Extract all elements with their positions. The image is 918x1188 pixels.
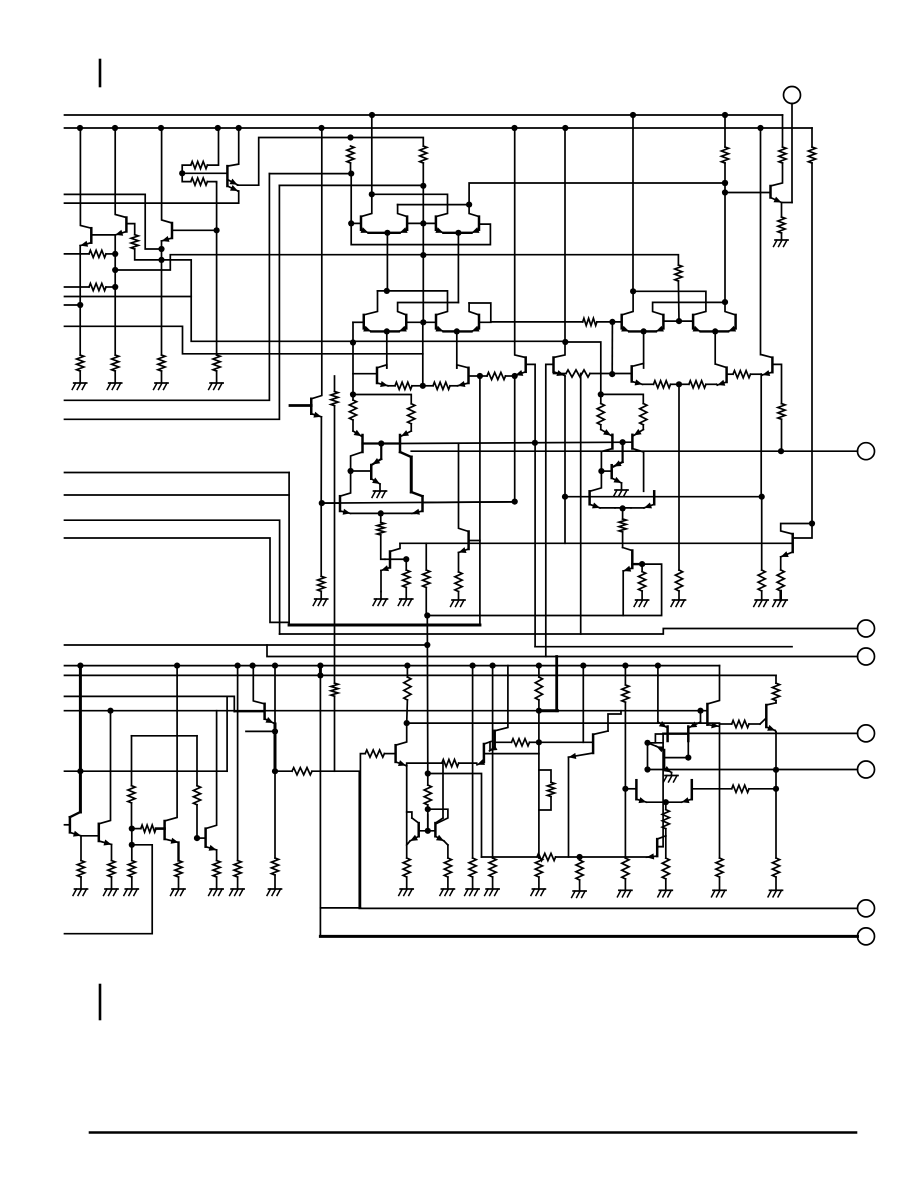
transistor Q55 PNP3 (611, 435, 614, 449)
wire x538 low (538, 742, 540, 858)
junction L665 x80.4 (77, 663, 83, 669)
transistor Q27 PNP1 (353, 430, 363, 452)
wire Q45 base (495, 739, 539, 746)
transistor Q15 (524, 358, 527, 372)
wire QO collector (165, 666, 178, 821)
wire QU collector tie (781, 524, 812, 535)
wire Q41 collector (407, 812, 419, 823)
wire L696 stair (65, 696, 235, 711)
wire x657 col (657, 666, 659, 722)
wire L496 (565, 496, 762, 498)
wire rq base link (663, 320, 693, 322)
resistor R20 (679, 381, 717, 388)
wire col216 (216, 183, 218, 355)
resistor R49 (489, 858, 496, 889)
junction bus2 x115 (112, 125, 118, 131)
wire L612 (426, 564, 661, 615)
junction q22 base (609, 371, 615, 377)
resistor R3 (112, 355, 119, 383)
junction bus1 x372 (369, 112, 375, 118)
junction Q3 emitter (158, 246, 164, 252)
wire L625 thick (289, 624, 480, 627)
transistor Q38 QO (163, 821, 166, 839)
ground G18 (209, 889, 224, 896)
ground G27 (617, 890, 632, 897)
wire QG net stub (390, 558, 406, 560)
transistor Q43 QW (394, 745, 397, 762)
junction x725 y183 (722, 180, 728, 186)
wire L400 (65, 174, 270, 401)
junction Q1 emitter stub (65, 302, 84, 308)
wire QG collector (390, 543, 400, 551)
resistor R63 (331, 683, 338, 771)
wire Q50 base (692, 785, 776, 792)
wire x423 tail (422, 322, 424, 386)
wire x760 down (760, 128, 762, 355)
wire Q21 collector (725, 302, 736, 315)
wire x131 low (131, 829, 133, 861)
wire x237 col (237, 666, 239, 861)
wire QI collector (459, 444, 469, 532)
wire L472 (65, 472, 290, 474)
resistor R47 (442, 760, 477, 767)
wire PNP2 collector (400, 452, 423, 496)
transistor Q4 dual emitter (182, 166, 227, 186)
resistor R58 (662, 858, 669, 890)
ground G9 (451, 600, 466, 607)
transistor Q14 (457, 365, 469, 387)
wire Q10 collector (398, 303, 459, 315)
wire L342 jog (565, 342, 601, 394)
wire Q26 emitter (311, 412, 321, 503)
transistor Q35 QU (791, 534, 794, 552)
transistor Q53 QS (765, 705, 768, 727)
junction Q4 base (179, 170, 185, 176)
wire Q42 emit col (447, 845, 449, 858)
ground G11 (754, 600, 769, 607)
ground G19 (230, 889, 245, 896)
wire Q40 emitter (265, 717, 275, 724)
wire Q18 collector (622, 291, 633, 315)
transistor Q26 (290, 399, 311, 414)
resistor R17 (808, 128, 815, 524)
wire Q4 emitter1 (227, 179, 258, 186)
tick mark bottom-left (99, 985, 102, 1019)
wire Q3 emitter (162, 236, 173, 355)
wire Q54 emitter (569, 753, 594, 857)
wire x275 col (274, 666, 276, 772)
terminal pin P7 (858, 900, 875, 917)
transistor Q32 QG (385, 552, 390, 568)
junction L665 x625.4 (622, 663, 628, 669)
wire Q45 collector (495, 666, 508, 731)
wire x320 thick link (319, 666, 322, 676)
junction R2 out (158, 257, 164, 263)
wire QM emitter drop (80, 836, 82, 861)
transistor Q25 Tb (761, 355, 772, 376)
wire QS emitter (766, 725, 776, 732)
junction mirror base (378, 440, 384, 446)
wire Q16 emitter (554, 370, 566, 376)
wire QW emitter chain (406, 766, 408, 858)
transistor pair Q18 Q19 (621, 315, 664, 335)
junction L665 x538.9 (536, 663, 542, 669)
wire x289 col (288, 473, 290, 626)
footer rule (90, 1131, 856, 1134)
wire x679 col (678, 384, 680, 570)
wire Q2 emitter (115, 230, 126, 355)
wire thick L710 seg (539, 709, 558, 712)
resistor R22 (331, 376, 338, 683)
junction bus2 x238.7 (236, 125, 242, 131)
junction L183 end (722, 180, 728, 186)
wire x647 col (647, 743, 649, 770)
wire bus2 second rail (65, 127, 813, 129)
junction n270 (112, 267, 118, 273)
wire x131 col (131, 736, 133, 786)
wire QW base (360, 750, 395, 908)
wire y844 to L933 (65, 845, 153, 934)
wire x423 mid (422, 223, 424, 322)
resistor R62 (318, 576, 325, 599)
wire QO emitter (165, 838, 179, 861)
wire Q26 collector (311, 128, 322, 399)
junction x80 L771 (77, 768, 83, 774)
wire Q8 collector (469, 205, 479, 217)
transistor Q28 PNP2 (400, 430, 411, 452)
terminal pin P1 (782, 87, 801, 203)
junction rwp center (676, 381, 682, 387)
junction x725 y302 (722, 299, 728, 305)
wire QT collector (657, 836, 666, 839)
ground G26 (572, 891, 587, 898)
wire QS emit col (775, 732, 777, 858)
junction QP base (194, 835, 200, 841)
wire Q13 base (353, 373, 377, 375)
resistor R34 (108, 861, 115, 890)
junction R11 mid (420, 183, 426, 189)
transistor Q52 QR (706, 704, 709, 725)
wire Q5 base (351, 222, 361, 224)
wire QV collector (623, 548, 633, 551)
junction L665 x252.6 (250, 663, 256, 669)
wire QW collector (396, 723, 407, 745)
junction L857 x579 (577, 854, 583, 860)
junction Q46 base (644, 740, 650, 746)
transistor Q50 (666, 780, 692, 803)
wire QI emitter (459, 547, 469, 572)
junction L710 x110 (107, 708, 113, 714)
resistor R66 (601, 394, 647, 435)
wire QR emitter (707, 722, 719, 728)
terminal pin P2 (781, 443, 875, 460)
junction QF2 base (685, 755, 691, 761)
wire QP collector (206, 711, 217, 829)
wire q12 link (469, 303, 491, 322)
wire L773 (428, 774, 482, 858)
ground G3 (154, 383, 169, 390)
resistor R30 (758, 570, 765, 600)
wire L857 ext (580, 856, 652, 858)
transistor Q49 (625, 780, 665, 803)
wire Q2 collector (115, 128, 126, 218)
wire row2 base link (406, 321, 436, 323)
terminal pin P5 (858, 725, 875, 742)
wire QY QX join (489, 742, 491, 750)
junction Q5 base (348, 220, 354, 226)
wire x321 lower (320, 503, 322, 576)
junction x625 y788 (622, 786, 628, 792)
wire Q15 emitter (515, 370, 526, 376)
wire row2 top link (378, 291, 448, 315)
transistor Q1 (91, 228, 115, 243)
resistor R15 (779, 115, 786, 163)
transistor Q16 (552, 358, 555, 372)
junction QG net (403, 556, 409, 562)
junction lwp center (378, 510, 384, 516)
wire QP emitter (206, 845, 217, 861)
wire Q4 emitter2 (65, 185, 239, 203)
wire QU base tie (793, 524, 812, 539)
wire L296 (65, 296, 192, 298)
wire L183 (469, 183, 725, 205)
wire x538 top (538, 666, 540, 677)
junction L665 x657.9 (655, 663, 661, 669)
transistor Q41 PNPa (417, 823, 420, 836)
resistor R37 (128, 861, 135, 890)
junction y194 x372 (369, 191, 375, 197)
wire x583 drop (582, 666, 584, 743)
resistor R60 (772, 675, 779, 703)
resistor R11 (420, 146, 427, 223)
transistor Q58 (590, 491, 615, 508)
transistor Q22 (632, 363, 654, 385)
wire x725 col (724, 193, 726, 303)
transistor pair Q20 Q21 (693, 315, 737, 335)
wire x427 col (426, 616, 429, 774)
ground G31 (768, 890, 783, 897)
resistor R9 (182, 173, 216, 185)
wire R57 low (665, 836, 667, 858)
junction QU tie (809, 520, 815, 526)
resistor R2 (131, 235, 161, 260)
ground G7 (373, 592, 388, 606)
resistor R12 (395, 382, 423, 389)
resistor R31 (639, 564, 646, 600)
resistor R32 (777, 570, 784, 600)
wire stair y270 (115, 255, 423, 270)
wire x625 low (624, 789, 626, 858)
junction Q3 base (214, 227, 220, 233)
wire x492 col (492, 666, 494, 858)
transistor Q44 QX (477, 744, 485, 765)
transistor Q33 QI (469, 532, 480, 550)
wire x227 drop (226, 696, 228, 771)
resistor R28 (455, 572, 462, 600)
wire L451 (411, 450, 781, 452)
transistor Q59 (631, 491, 654, 508)
wire Q25 base (772, 364, 781, 403)
wire Q56 collector (632, 449, 643, 492)
wire L770 (648, 769, 858, 771)
junction n287 (112, 284, 118, 290)
transistor Q51 QT (657, 839, 663, 856)
transistor Q13 (377, 365, 395, 387)
junction QK emitter (512, 373, 518, 379)
junction x776 y788 (773, 786, 779, 792)
wire QM emitter (70, 831, 99, 837)
wire QF3 collector (612, 477, 622, 490)
resistor R38 (175, 861, 182, 890)
ground G10 (671, 600, 686, 607)
ground G29 (658, 890, 673, 897)
wire L185 (279, 184, 423, 186)
junction rwp2 center (620, 505, 626, 511)
junction L665 x275 (272, 663, 278, 669)
wire emitter link (407, 763, 442, 766)
resistor R44 (403, 858, 410, 889)
resistor R42 (271, 858, 278, 889)
transistor Q37 QN (98, 824, 101, 841)
wire Q30 collector (340, 471, 351, 496)
transistor Q42 PNPb (434, 823, 437, 836)
ground G6 mini (372, 491, 387, 498)
wire y731 stub (246, 730, 275, 732)
resistor R48 (469, 858, 476, 889)
wire rq emitters (644, 331, 716, 364)
wire Q3 collector (162, 128, 172, 223)
terminal pin P3 (280, 620, 875, 637)
junction x427 y830 (425, 828, 431, 834)
junction x565 L342 (562, 339, 568, 345)
wire Q9 base (353, 321, 364, 323)
junction mirror top (350, 391, 356, 397)
wire Q16 collector (554, 128, 566, 358)
resistor R16 (778, 217, 785, 240)
transistor Q29 QF (351, 444, 382, 479)
wire Q42 collector (435, 763, 443, 823)
junction x776 L770 (773, 767, 779, 773)
transistor Q30 (322, 496, 415, 515)
resistor R61 (772, 858, 779, 890)
wire pnp r bases (668, 733, 689, 735)
wire mirror base ext (400, 442, 632, 443)
wire Q19 collector (653, 302, 725, 315)
tick mark top-left (99, 60, 102, 86)
resistor R54 (576, 860, 583, 891)
resistor R23 (349, 395, 356, 432)
ground G14 (73, 889, 88, 896)
junction QW coll (404, 720, 410, 726)
resistor R33 (77, 861, 84, 890)
wire x580 riser (580, 374, 582, 635)
wire x351 seg (350, 174, 352, 224)
wire Q47 emit col (700, 711, 702, 722)
junction bus2 x321.5 (318, 125, 324, 131)
wire L771 (65, 770, 228, 772)
junction Q26 em wp base (319, 500, 325, 506)
transistor Q57 QF3 (601, 442, 622, 478)
resistor R4 (65, 250, 116, 257)
junction QV base (639, 561, 645, 567)
junction L675 x320 (317, 672, 323, 678)
resistor R41 (234, 861, 241, 890)
junction quad1 base (420, 220, 426, 226)
wire QW emitter (396, 760, 407, 766)
resistor R21 (778, 404, 785, 452)
ground G13 (773, 600, 788, 607)
wire L417 (65, 185, 280, 419)
wire Q1 collector (80, 128, 91, 228)
wire Q6 collector (398, 205, 408, 217)
resistor R64 (619, 508, 626, 547)
transistor Q54 (539, 735, 593, 754)
junction bus1 x725 (722, 112, 728, 118)
wire Q17 collector (771, 163, 783, 186)
wire bus1 top rail (65, 114, 783, 116)
junction QY base (536, 739, 542, 745)
transistor Q47 PNPr2 (688, 722, 700, 742)
ground G28 mini (664, 776, 679, 783)
wire Q15 base (526, 364, 535, 646)
junction L665 x492.6 (490, 663, 496, 669)
junction bus2 x760.5 (757, 125, 763, 131)
transistor pair Q9 Q10 (363, 315, 407, 335)
wire mirror bases (363, 442, 401, 444)
wire Q2 base lead (126, 224, 134, 235)
wire y173 (269, 173, 351, 175)
wire QR collector (707, 666, 719, 704)
junction R10 out (348, 171, 354, 177)
transistor Q36 QM (65, 812, 81, 832)
wire thick x557 (555, 657, 558, 711)
junction x275 y771 (272, 768, 278, 774)
resistor R19 (654, 381, 680, 388)
wire L326 to L353 (65, 326, 423, 354)
transistor Q17 (725, 186, 771, 198)
resistor R51 (535, 858, 542, 889)
ground G8 (398, 599, 413, 606)
junction y204 x469 (466, 202, 472, 208)
junction R21 out (778, 448, 784, 454)
wire Q1 emitter (80, 241, 91, 355)
wire Q44 collector (484, 742, 491, 745)
wire x131 x197 link (132, 735, 198, 737)
resistor R14 (721, 115, 728, 193)
wire Q47 QF2 link (687, 741, 689, 758)
ground G22 (440, 889, 455, 896)
transistor Q2 (125, 218, 128, 232)
transistor Q31 (412, 496, 423, 515)
resistor R8 (182, 128, 218, 173)
resistor R24 (353, 395, 415, 432)
ground G20 (267, 889, 282, 896)
junction x514 L502 (512, 499, 518, 505)
resistor R25 (377, 513, 385, 559)
ground G21 (399, 889, 414, 896)
wire x565 down (564, 376, 566, 543)
wire QT emitter (647, 853, 658, 859)
junction x427 y773 (425, 770, 431, 776)
terminal pin P4 (267, 645, 875, 665)
resistor R50 (535, 677, 542, 742)
wire L538 (65, 538, 290, 622)
resistor R53 (537, 853, 580, 860)
wire QR em col (719, 724, 721, 858)
junction mirror2 base tap (532, 440, 538, 446)
wire L723 (407, 722, 720, 724)
wire Q55 collector (601, 449, 612, 472)
